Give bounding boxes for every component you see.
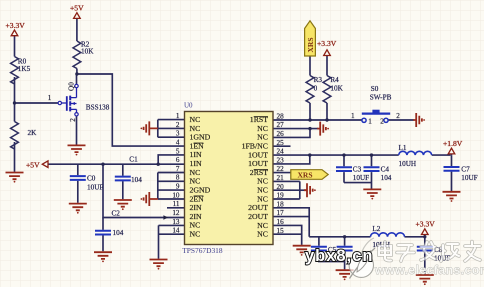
resistor 2K [11,122,37,150]
svg-text:1GND: 1GND [190,133,211,142]
capacitor C5 [311,246,337,254]
junction arrow pin12 [163,215,168,220]
svg-text:17: 17 [277,209,285,217]
capacitor C1 [115,156,142,184]
ground left of pins1-3 [141,121,158,135]
svg-text:12: 12 [172,209,180,217]
ground below C0 [69,204,87,214]
wire C1 leads [122,164,124,199]
wire +3.3V bottom stem [424,235,426,237]
wire pin11 stub [167,207,185,209]
wire R4 leads [326,56,328,120]
resistor R2 [73,40,94,68]
ground below C8 [416,275,434,285]
wire pin16/15 to ground [273,225,302,245]
svg-text:27: 27 [277,121,285,129]
svg-text:104: 104 [113,229,124,237]
svg-text:NC: NC [190,168,201,177]
svg-text:NC: NC [257,194,268,203]
svg-text:C3: C3 [353,166,362,174]
wire pin28 net to switch [273,119,362,121]
svg-text:+5V: +5V [26,161,40,170]
svg-text:R3: R3 [314,76,323,84]
wire C2 leads [102,218,104,252]
wire source to ground [76,116,78,145]
capacitor C7 [444,165,478,182]
svg-text:20: 20 [277,183,285,191]
svg-text:1: 1 [351,112,355,120]
wire pins21-19 bar [273,181,300,199]
wire +5V rail [48,163,185,165]
wire +1.8V stem [451,154,453,155]
power +3.3V top-left [6,21,26,36]
svg-text:28: 28 [277,112,285,120]
svg-text:C4: C4 [381,166,390,174]
svg-text:1IN: 1IN [190,150,202,159]
svg-text:BSS138: BSS138 [86,104,110,112]
svg-text:R4: R4 [330,76,339,84]
svg-text:1FB/NC: 1FB/NC [242,142,268,151]
svg-text:16: 16 [277,218,285,226]
pin labels right [242,115,269,239]
wire pins21-19 ground stem [300,189,307,191]
net flag XRS horizontal at pin22 [291,170,328,180]
wire pins7-10 bar [158,173,185,200]
svg-text:25: 25 [277,139,285,147]
svg-text:1: 1 [48,94,52,102]
ground below pins16-15 [293,246,311,256]
svg-text:104: 104 [131,176,142,184]
svg-text:2GND: 2GND [190,185,211,194]
svg-text:26: 26 [277,130,285,138]
svg-text:10UF: 10UF [461,174,477,182]
svg-text:C7: C7 [461,165,470,173]
wire R3 leads [309,56,311,120]
pin labels left [190,115,211,239]
inductor L2 [371,225,405,249]
svg-text:6: 6 [176,156,180,164]
ground below C7 [443,192,461,202]
svg-text:2OUT: 2OUT [248,203,268,212]
svg-text:19: 19 [277,192,285,200]
transistor Q0 BSS138 [48,82,110,122]
wire drain [76,74,78,84]
wire switch to ground [388,119,414,121]
svg-text:15: 15 [277,227,285,235]
svg-text:U0: U0 [184,102,193,110]
svg-text:ybx8,cn: ybx8,cn [305,247,373,265]
svg-text:2IN: 2IN [190,212,202,221]
capacitor C8 [417,246,451,262]
svg-text:C1: C1 [129,156,138,164]
svg-text:www.elecfans.com: www.elecfans.com [374,263,484,277]
capacitor C0 [70,174,104,191]
ground below C4 [363,189,381,199]
ground below C6 [336,270,354,280]
wire 2OUT rail [309,236,425,238]
svg-text:NC: NC [257,177,268,186]
svg-text:SW-PB: SW-PB [370,94,392,102]
power +5V top [70,4,84,19]
capacitor C2 [95,209,124,236]
pin numbers right 28-15 [277,112,285,234]
svg-text:21: 21 [277,174,285,182]
svg-text:+1.8V: +1.8V [443,139,463,148]
wire 2K to ground [14,142,16,172]
svg-text:NC: NC [257,186,268,195]
svg-text:1IN: 1IN [190,159,202,168]
ground right of switch [413,113,425,127]
svg-text:L2: L2 [372,225,380,233]
svg-text:Q0: Q0 [67,82,75,91]
power +3.3V above R4 [317,39,337,56]
svg-text:10K: 10K [330,85,343,93]
ground right of pins21-19 [304,183,316,197]
wire pin23 riser [273,155,310,164]
wire R0 to 2K [14,77,16,122]
svg-text:NC: NC [257,230,268,239]
svg-text:18: 18 [277,200,285,208]
svg-text:13: 13 [172,218,180,226]
svg-text:10UH: 10UH [399,160,417,168]
wire pin25 stub [273,145,291,147]
svg-text:7: 7 [176,165,180,173]
wire pin5 riser [158,155,184,164]
power +5V rail arrow [26,161,48,170]
ground below Q0 source [68,145,86,155]
svg-text:9: 9 [176,183,180,191]
svg-text:0: 0 [314,85,318,93]
svg-text:1: 1 [368,118,372,126]
svg-text:2: 2 [380,118,384,126]
svg-text:NC: NC [257,133,268,142]
svg-text:XRS: XRS [306,37,315,52]
svg-text:23: 23 [277,156,285,164]
ground below pins13-14 [150,260,168,270]
svg-text:L1: L1 [399,144,407,152]
svg-text:8: 8 [176,174,180,182]
svg-text:2: 2 [396,112,400,120]
svg-text:NC: NC [190,177,201,186]
svg-text:NC: NC [257,124,268,133]
svg-text:NC: NC [190,230,201,239]
wire +3.3V to R0 [14,36,16,57]
svg-text:4: 4 [176,139,180,147]
svg-text:TPS767D318: TPS767D318 [182,246,223,255]
svg-text:10K: 10K [81,47,94,55]
svg-text:22: 22 [277,165,285,173]
switch S0 SW-PB [351,85,400,126]
wire gate net [15,102,59,104]
svg-text:S0: S0 [371,85,379,93]
svg-text:XRS: XRS [298,170,313,179]
svg-text:10UF: 10UF [353,174,369,182]
ground left of pins7-10 [141,192,158,206]
wire C7 leads [451,155,453,191]
wire C3-C4 bottom link [344,182,372,184]
svg-text:11: 11 [173,200,180,208]
svg-text:1K5: 1K5 [18,65,31,73]
svg-text:10: 10 [172,191,180,199]
svg-text:2: 2 [176,121,180,129]
wire pin26 riser [273,129,310,138]
svg-text:2IN: 2IN [190,203,202,212]
wire +5V to R2 [76,18,78,41]
wire C5 leads [319,237,345,262]
wire drain junction to 1EN pin4 [77,74,185,146]
ground below C1 [114,200,132,210]
svg-text:2OUT: 2OUT [248,212,268,221]
wire C2 branch [103,164,185,217]
wire 1OUT net [273,154,451,156]
power +3.3V bottom-right [416,220,436,235]
net flag XRS vertical [305,21,316,56]
svg-text:2: 2 [69,118,77,122]
svg-text:3: 3 [176,130,180,138]
svg-text:NC: NC [190,115,201,124]
wire C0 lead top [77,164,79,175]
wire C3 leads [343,155,345,183]
svg-text:104: 104 [381,174,392,182]
resistor R0 [11,57,31,85]
wire C6 leads [344,237,346,270]
wire pin27 to ground [273,128,318,130]
svg-text:24: 24 [277,148,285,156]
svg-text:+3.3V: +3.3V [317,39,337,48]
wire R2 to drain junction [76,69,78,75]
svg-text:NC: NC [257,221,268,230]
svg-text:1OUT: 1OUT [248,150,268,159]
svg-text:1OUT: 1OUT [248,159,268,168]
svg-text:NC: NC [190,124,201,133]
svg-text:+3.3V: +3.3V [416,220,436,229]
watermark elecfans circle logo [349,238,375,279]
ground below 2K [6,173,24,183]
svg-text:14: 14 [172,227,180,235]
wire pin18/17 riser [273,208,309,237]
resistor R4 [323,76,343,104]
watermark elecfans chinese characters (drawn as outlined strokes) [379,242,480,262]
capacitor C3 [336,166,369,183]
capacitor C4 [364,166,392,183]
svg-text:+5V: +5V [70,4,84,13]
svg-text:C0: C0 [87,174,96,182]
wire pins13-14 bar to ground [159,225,185,258]
wire C4 leads [371,155,373,189]
svg-text:NC: NC [190,221,201,230]
wire C8 leads [424,237,426,274]
svg-text:10UF: 10UF [87,183,103,191]
svg-text:1: 1 [176,112,180,120]
resistor R3 [306,76,322,104]
svg-text:2K: 2K [28,129,38,137]
capacitor C6 [337,247,353,251]
op-amp U0 TPS767D318 IC body [182,102,273,255]
ground right of pin27 [317,122,329,136]
pin label overlines [194,117,268,196]
svg-text:+3.3V: +3.3V [6,21,26,30]
wire pin22 stub [273,172,291,174]
power +1.8V [443,139,463,154]
inductor L1 [399,144,432,168]
wire C0 lead bottom [77,181,79,203]
ground below C2 [94,252,112,262]
svg-text:C2: C2 [112,209,121,217]
svg-text:5: 5 [176,147,180,155]
wire pins1-3 bar [158,120,185,138]
pin numbers left 1-14 [172,112,180,235]
